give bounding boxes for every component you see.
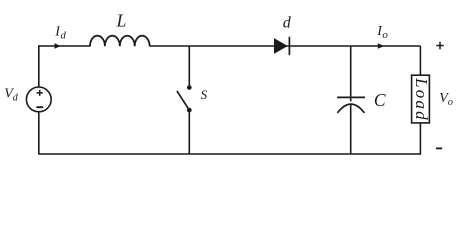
voltage source Vd	[26, 87, 51, 112]
svg-text:S: S	[201, 87, 208, 102]
svg-text:Io: Io	[376, 24, 388, 41]
wire switch branch lower	[188, 110, 190, 154]
source minus sign	[36, 106, 43, 108]
output minus sign	[436, 147, 442, 149]
capacitor C curved plate	[337, 104, 364, 113]
wire capacitor branch lower	[350, 105, 352, 154]
source plus sign	[37, 90, 43, 96]
wire load branch lower	[419, 123, 421, 155]
capacitor C top plate	[337, 96, 365, 98]
output plus sign	[436, 42, 443, 49]
svg-text:Load: Load	[412, 77, 431, 122]
inductor L	[90, 36, 150, 47]
switch S blade	[177, 91, 189, 109]
switch S bottom contact dot	[187, 108, 192, 113]
wire left vertical lower	[38, 112, 40, 155]
wire capacitor branch upper	[350, 46, 352, 101]
svg-text:C: C	[374, 90, 386, 110]
svg-text:Vo: Vo	[439, 91, 453, 108]
arrow Id	[55, 43, 61, 49]
wire bottom rail	[39, 153, 421, 155]
wire load branch upper	[419, 46, 421, 75]
wire left vertical upper	[38, 45, 40, 87]
wire switch branch upper	[188, 46, 190, 85]
svg-text:d: d	[283, 15, 292, 32]
wire top middle-right segment	[150, 45, 421, 47]
svg-text:L: L	[116, 11, 127, 31]
wire top left segment	[39, 45, 90, 47]
svg-text:Vd: Vd	[4, 87, 19, 104]
arrow Io	[378, 43, 384, 49]
switch S top contact dot	[187, 85, 192, 90]
diode d cathode bar	[288, 37, 290, 55]
diode d triangle	[274, 38, 288, 54]
svg-text:Id: Id	[54, 25, 66, 42]
load box	[412, 75, 430, 123]
